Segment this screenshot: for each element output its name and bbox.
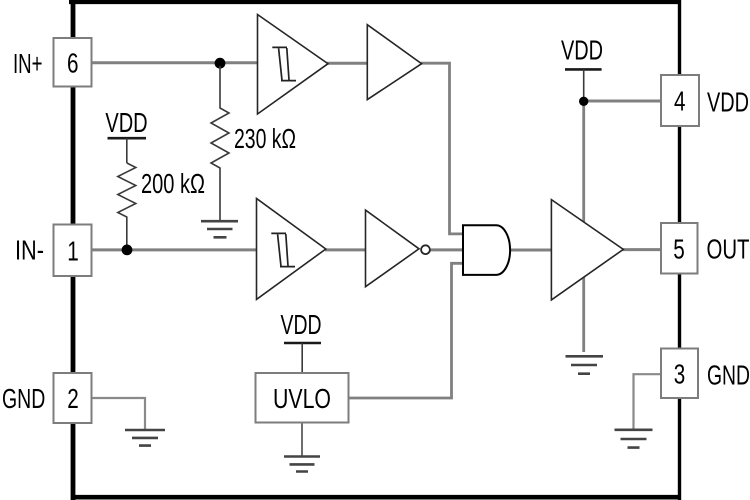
power symbol VDD (above UVLO) (281, 309, 322, 373)
output driver triangle (551, 200, 623, 300)
resistor 200 kOhm (118, 163, 136, 247)
svg-text:6: 6 (67, 47, 79, 78)
svg-text:3: 3 (674, 358, 686, 389)
node junction dot on IN- net (122, 245, 133, 256)
svg-text:IN+: IN+ (13, 48, 43, 79)
pin label OUT (707, 234, 750, 265)
wire: AND gate output to driver input (509, 249, 552, 252)
pin 2 box (54, 373, 92, 423)
pin 1 box (54, 225, 92, 277)
Schmitt trigger buffer 2 (IN- channel) (257, 199, 326, 300)
hysteresis symbol in Schmitt 1 (272, 47, 296, 80)
pin label VDD (right) (707, 86, 749, 117)
wire: pin 6 to Schmitt buffer input (IN+ net) (92, 61, 260, 64)
svg-text:2: 2 (67, 383, 79, 414)
wire: Schmitt 1 output to buffer input (327, 62, 368, 65)
svg-text:VDD: VDD (281, 309, 322, 340)
ground symbol at pin 3 (615, 430, 653, 448)
svg-text:OUT: OUT (707, 234, 750, 265)
wire: Schmitt 2 output to inverter input (325, 248, 367, 251)
svg-text:UVLO: UVLO (273, 383, 331, 414)
svg-text:VDD: VDD (105, 107, 147, 138)
svg-text:200 kΩ: 200 kΩ (141, 168, 205, 199)
wire: VDD rail down through driver to ground (582, 101, 585, 352)
power symbol VDD (above 200k resistor) (105, 107, 147, 163)
ground symbol at pin 2 (125, 430, 165, 446)
pin 4 box (661, 75, 699, 126)
node junction dot on IN+ net (215, 58, 226, 69)
UVLO block (256, 373, 349, 423)
wire: pin 1 to Schmitt buffer 2 input (IN- net) (92, 248, 259, 251)
hysteresis symbol in Schmitt 2 (271, 233, 295, 266)
pin 6 box (54, 38, 92, 87)
AND gate (463, 225, 510, 275)
ground symbol under driver (566, 356, 604, 373)
wire: driver output to pin 5 (OUT net) (623, 248, 663, 251)
svg-text:GND: GND (707, 360, 750, 391)
value label 230 kOhm (234, 123, 296, 154)
svg-text:4: 4 (674, 86, 686, 117)
node junction dot on VDD net (579, 97, 588, 106)
value label 200 kOhm (141, 168, 205, 199)
power symbol VDD (right, above pin 4) (561, 35, 603, 98)
svg-text:230 kΩ: 230 kΩ (234, 123, 296, 154)
inverter triangle (IN- channel) (366, 210, 430, 287)
resistor 230 kOhm (211, 66, 229, 220)
wire: inverter bubble to AND gate middle input (430, 248, 465, 251)
pin label IN- (15, 235, 44, 266)
svg-text:5: 5 (673, 233, 685, 264)
svg-text:VDD: VDD (561, 35, 603, 66)
pin label GND (right) (707, 360, 750, 391)
svg-text:VDD: VDD (707, 86, 749, 117)
Schmitt trigger buffer 1 (IN+ channel) (258, 15, 329, 115)
buffer triangle (IN+ channel) (367, 25, 421, 100)
svg-text:1: 1 (67, 235, 79, 266)
wire: UVLO output to AND gate lower input (348, 263, 464, 398)
svg-text:IN-: IN- (15, 235, 44, 266)
wire: UVLO to ground stem (301, 423, 303, 457)
pin label GND (left) (2, 383, 45, 414)
svg-text:GND: GND (2, 383, 45, 414)
wire: pin 3 to ground (634, 374, 663, 429)
ground symbol under UVLO (284, 457, 320, 472)
pin 5 box (661, 223, 698, 274)
wire: buffer output down to AND gate upper input (421, 63, 465, 234)
pin label IN+ (13, 48, 43, 79)
pin 3 box (661, 349, 698, 399)
ground symbol under 230k resistor (201, 221, 238, 237)
wire: VDD node to pin 4 (584, 100, 662, 103)
wire: pin 2 to ground (92, 398, 146, 429)
